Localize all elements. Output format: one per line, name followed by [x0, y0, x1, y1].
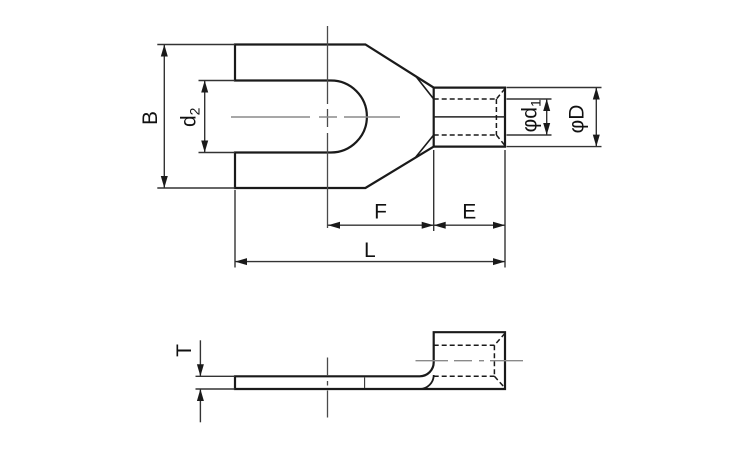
- dimension B arrow bottom: [161, 176, 168, 188]
- side view hidden chamfer upper diagonal (dashed): [494, 333, 505, 345]
- side view hidden line lower (dashed): [434, 375, 495, 377]
- svg-text:E: E: [462, 200, 476, 223]
- side view: terminal profile outline: [235, 332, 505, 389]
- dimension T line upper segment: [199, 340, 201, 376]
- barrel flare line upper (top view): [416, 76, 434, 99]
- svg-text:T: T: [173, 344, 196, 357]
- vertical centerline (side view): [327, 358, 329, 418]
- hidden hole line lower (top view, dashed): [434, 134, 497, 136]
- dimension T extension line top: [196, 375, 236, 377]
- svg-text:d2: d2: [178, 107, 203, 127]
- dimension L arrow left: [235, 258, 247, 265]
- hidden hole line upper (top view, dashed): [434, 98, 497, 100]
- dimension E line: [434, 224, 505, 226]
- dimension F arrow left: [328, 222, 340, 229]
- dimension phi-d1 extension line upper: [507, 98, 552, 100]
- side view: outer bend radius curve: [420, 375, 434, 389]
- extension line below body left edge (for L): [234, 190, 236, 268]
- dimension L arrow right: [493, 258, 505, 265]
- extension line below barrel left edge (for F/E): [433, 150, 435, 231]
- dimension T line lower segment: [199, 389, 201, 422]
- dimension d2 arrow bottom: [201, 141, 208, 153]
- side view hidden chamfer lower diagonal (dashed): [494, 376, 505, 388]
- dimension B extension line bottom: [157, 187, 235, 189]
- dimension phi-d1 arrow bottom: [543, 123, 550, 135]
- dimension F line: [328, 224, 434, 226]
- horizontal centerline (top view): [231, 116, 400, 118]
- svg-text:L: L: [364, 239, 376, 262]
- dimension T arrow down: [197, 364, 204, 376]
- svg-text:B: B: [139, 111, 162, 125]
- dimension d2 line: [204, 81, 206, 153]
- dimension E arrow right: [493, 222, 505, 229]
- barrel flare line lower (top view): [416, 135, 434, 157]
- dimension B arrow top: [161, 45, 168, 57]
- barrel left edge / crimp stop (top view): [433, 88, 435, 147]
- dimension phi-d1 line: [546, 99, 548, 135]
- dimension phi-D arrow bottom: [593, 135, 600, 147]
- hidden chamfer lower diagonal (top view, dashed): [496, 135, 505, 146]
- side view: taper edge projection line: [364, 378, 366, 389]
- side view hidden line upper (dashed): [434, 344, 495, 346]
- dimension phi-D extension line lower: [507, 146, 602, 148]
- svg-text:F: F: [374, 200, 387, 223]
- dimension B line: [163, 45, 165, 189]
- dimension phi-d1 extension line lower: [507, 134, 552, 136]
- vertical centerline (top view): [327, 26, 329, 228]
- dimension E arrow left: [434, 222, 446, 229]
- extension line below barrel right edge (for E/L): [504, 150, 506, 268]
- hidden chamfer upper diagonal (top view, dashed): [496, 89, 505, 99]
- dimension d2 extension line top: [199, 80, 236, 82]
- top view: fork terminal body outline: [235, 45, 505, 189]
- barrel seam line (top view): [434, 116, 505, 118]
- dimension phi-D arrow top: [593, 88, 600, 100]
- side view hidden chamfer vertical (dashed): [493, 345, 495, 376]
- dimension d2 arrow top: [201, 81, 208, 93]
- dimension B extension line top: [157, 44, 235, 46]
- svg-text:φD: φD: [566, 105, 589, 134]
- svg-text:φd1: φd1: [519, 99, 544, 132]
- hidden chamfer vertical (top view, dashed): [495, 99, 497, 135]
- dimension d2 extension line bottom: [199, 152, 236, 154]
- dimension phi-D line: [595, 88, 597, 147]
- dimension phi-D extension line upper: [507, 87, 602, 89]
- dimension T extension line bottom: [196, 388, 236, 390]
- dimension L line: [235, 261, 505, 263]
- dimension phi-d1 arrow top: [543, 99, 550, 111]
- horizontal centerline (side view): [416, 360, 524, 362]
- dimension F arrow right: [422, 222, 434, 229]
- dimension T arrow up: [197, 389, 204, 401]
